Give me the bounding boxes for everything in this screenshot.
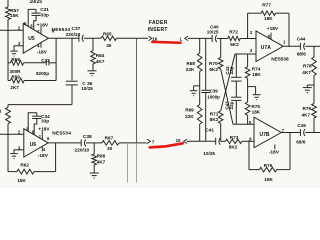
resistor R70	[209, 39, 223, 73]
svg-text:8K2: 8K2	[210, 117, 219, 122]
svg-text:R71: R71	[210, 112, 219, 117]
svg-text:16: 16	[152, 36, 157, 41]
resistor R77	[248, 3, 289, 47]
node L return arrow	[180, 36, 189, 41]
capacitor C41	[203, 128, 220, 156]
resistor R79	[302, 85, 317, 133]
resistor R72	[228, 30, 241, 48]
svg-text:10/25: 10/25	[30, 0, 43, 5]
pin 3	[18, 145, 21, 150]
svg-text:U5: U5	[28, 36, 35, 42]
svg-text:22K: 22K	[185, 114, 194, 119]
node 7 send arrow	[147, 139, 155, 145]
capacitor C39	[201, 39, 220, 142]
resistor R66	[92, 143, 106, 173]
pin 2	[18, 130, 21, 135]
svg-text:4K7: 4K7	[96, 59, 105, 64]
svg-text:NE5538: NE5538	[271, 56, 289, 62]
svg-text:R79: R79	[303, 106, 312, 111]
wire	[117, 37, 148, 39]
pin 7 +18V	[38, 126, 50, 139]
svg-text:4K7: 4K7	[302, 113, 311, 118]
capacitor C43	[225, 97, 242, 124]
pin 4 -18V	[37, 43, 48, 56]
svg-text:15K: 15K	[10, 13, 19, 18]
label NE5538	[271, 56, 289, 62]
svg-text:68/6: 68/6	[296, 139, 306, 144]
svg-text:R62: R62	[20, 163, 29, 168]
red insert jumper mark	[150, 143, 183, 147]
svg-text:R74: R74	[252, 66, 261, 71]
capacitor C37	[66, 26, 84, 42]
wire	[0, 133, 24, 135]
label NE5534	[52, 27, 71, 33]
wire	[221, 54, 235, 111]
svg-text:NE5534: NE5534	[52, 131, 71, 137]
svg-text:22p: 22p	[229, 101, 234, 109]
resistor R59	[10, 74, 24, 90]
resistor R73	[225, 135, 242, 150]
capacitor C40	[207, 25, 219, 43]
wire	[8, 171, 17, 173]
svg-text:-18V: -18V	[38, 153, 49, 159]
svg-text:R65: R65	[103, 31, 112, 36]
wire	[7, 20, 9, 81]
wire	[84, 37, 101, 39]
svg-text:R67: R67	[105, 135, 114, 140]
resistor R57	[6, 7, 20, 20]
wire	[48, 142, 81, 144]
wire	[281, 132, 300, 134]
svg-text:R64: R64	[96, 53, 105, 58]
svg-text:68/6: 68/6	[297, 51, 307, 56]
wire	[86, 142, 102, 144]
svg-text:R66: R66	[97, 154, 106, 159]
resistor R76	[249, 133, 290, 182]
wire	[49, 38, 56, 63]
svg-text:R78: R78	[303, 64, 312, 69]
pin 3	[250, 48, 253, 53]
svg-text:FADER: FADER	[149, 20, 168, 26]
resistor R64	[91, 38, 105, 70]
svg-text:4K7: 4K7	[302, 70, 311, 75]
wire	[34, 143, 56, 172]
pin 1	[283, 40, 286, 45]
node 10 return arrow	[176, 138, 187, 143]
wire	[199, 72, 201, 105]
capacitor C32	[36, 58, 50, 76]
pin 3	[18, 41, 21, 46]
capacitor C36	[66, 38, 94, 104]
svg-text:R59: R59	[11, 74, 20, 79]
wire	[240, 38, 256, 40]
svg-text:R70: R70	[209, 61, 218, 66]
svg-text:+18V: +18V	[38, 126, 50, 132]
svg-text:R68: R68	[186, 61, 195, 66]
pin 4 -18V	[269, 145, 280, 156]
pin 6	[52, 28, 55, 33]
svg-text:10/25: 10/25	[81, 86, 93, 91]
wire	[221, 69, 233, 124]
svg-text:R77: R77	[262, 3, 271, 8]
svg-text:2K7: 2K7	[10, 85, 19, 90]
svg-text:-18V: -18V	[269, 149, 280, 155]
op-amp U7B	[254, 117, 281, 148]
op-amp U7A	[256, 31, 283, 62]
capacitor C31	[28, 7, 49, 29]
wire	[7, 0, 9, 7]
pin 8 +18V	[267, 26, 279, 40]
pin 6	[249, 136, 252, 141]
svg-text:15K: 15K	[17, 178, 26, 183]
svg-text:INSERT: INSERT	[148, 27, 168, 33]
wire	[14, 150, 24, 154]
wire	[305, 132, 320, 134]
wire	[8, 63, 56, 81]
pin 5	[24, 21, 27, 26]
svg-text:C45: C45	[297, 123, 306, 128]
wire	[0, 29, 23, 31]
svg-text:220/10: 220/10	[75, 147, 90, 153]
resistor R74	[245, 54, 261, 78]
svg-text:R73: R73	[230, 135, 239, 140]
svg-text:C44: C44	[297, 36, 306, 41]
resistor R65	[101, 31, 117, 48]
capacitor C38	[75, 134, 93, 153]
ground	[10, 154, 17, 159]
capacitor C44	[297, 36, 307, 56]
op-amp U6	[24, 129, 48, 157]
svg-text:C37: C37	[72, 26, 81, 32]
svg-text:18K: 18K	[252, 72, 261, 77]
svg-text:10/25: 10/25	[203, 151, 215, 156]
resistor R62	[17, 163, 34, 184]
svg-text:+18V: +18V	[37, 22, 49, 28]
ground	[88, 71, 97, 76]
capacitor C45	[296, 123, 306, 144]
svg-text:18K: 18K	[264, 177, 273, 182]
svg-text:1000p: 1000p	[207, 94, 220, 99]
ground	[190, 86, 200, 96]
ground	[248, 87, 261, 100]
svg-text:22p: 22p	[229, 66, 234, 74]
resistor R58	[10, 57, 24, 74]
svg-text:R58: R58	[11, 57, 20, 62]
svg-text:R72: R72	[229, 30, 238, 35]
wire	[8, 62, 46, 64]
wire	[126, 143, 128, 183]
wire	[8, 104, 72, 106]
svg-text:R75: R75	[251, 104, 260, 109]
resistor R75	[245, 102, 261, 124]
svg-text:C32: C32	[41, 58, 50, 63]
wire	[242, 140, 254, 142]
label NE5534	[52, 131, 71, 137]
resistor R78	[302, 46, 316, 85]
pin 7	[282, 128, 285, 133]
svg-text:8200p: 8200p	[36, 71, 49, 76]
ground	[90, 173, 99, 178]
svg-text:30: 30	[106, 43, 112, 48]
wire	[199, 124, 201, 141]
wire	[119, 142, 147, 144]
svg-text:U6: U6	[30, 142, 37, 148]
svg-text:4K7: 4K7	[97, 159, 106, 164]
wire	[235, 53, 256, 55]
svg-text:10/25: 10/25	[207, 30, 219, 35]
ground	[303, 85, 314, 93]
wire	[283, 45, 300, 47]
pin 5	[249, 120, 252, 125]
svg-text:R69: R69	[185, 108, 194, 113]
pin 7 +18V	[37, 22, 49, 34]
svg-text:-18V: -18V	[37, 50, 48, 56]
svg-text:C39: C39	[210, 88, 219, 93]
svg-text:30: 30	[107, 146, 113, 151]
wire	[188, 37, 212, 39]
node 16 send arrow	[149, 36, 158, 41]
pin 8	[30, 23, 33, 28]
svg-text:18K: 18K	[252, 110, 261, 115]
resistor R61	[0, 105, 10, 124]
resistor R71	[210, 111, 223, 142]
svg-text:33p: 33p	[41, 118, 49, 123]
svg-text:R76: R76	[264, 163, 273, 168]
capacitor C42	[225, 54, 242, 97]
svg-text:22K: 22K	[186, 67, 195, 72]
capacitor C34	[28, 113, 50, 135]
svg-text:18K: 18K	[264, 16, 273, 21]
resistor R67	[102, 135, 119, 151]
op-amp U5	[23, 23, 48, 53]
svg-text:U7A: U7A	[261, 45, 271, 51]
resistor R68	[186, 39, 202, 73]
svg-text:8K2: 8K2	[229, 145, 238, 150]
wire	[305, 45, 320, 47]
svg-text:C41: C41	[205, 128, 214, 133]
resistor R69	[185, 105, 202, 125]
pin 2	[250, 30, 253, 35]
pin 5	[26, 126, 29, 131]
svg-text:L: L	[180, 36, 183, 41]
pin 2	[18, 26, 21, 31]
red insert jumper mark	[152, 41, 180, 44]
wire	[247, 78, 249, 102]
wire	[221, 140, 226, 142]
svg-text:33p: 33p	[41, 12, 49, 17]
wire	[217, 38, 228, 40]
pin 8	[32, 129, 35, 134]
svg-text:6K2: 6K2	[230, 42, 239, 47]
svg-text:10: 10	[176, 138, 181, 143]
svg-text:+18V: +18V	[267, 26, 279, 32]
wire	[48, 37, 78, 39]
label FADER INSERT	[148, 20, 168, 33]
pin 6	[47, 136, 50, 141]
capacitor value 10/25 (clipped at top)	[30, 0, 43, 5]
svg-text:C38: C38	[83, 134, 92, 140]
wire	[187, 140, 216, 142]
wire	[7, 124, 9, 172]
ground	[10, 51, 17, 56]
wire	[136, 38, 138, 182]
wire	[14, 46, 23, 51]
svg-text:6K2: 6K2	[209, 67, 218, 72]
svg-text:220/10: 220/10	[66, 32, 81, 38]
wire	[233, 123, 254, 125]
pin 4 -18V	[38, 146, 49, 159]
svg-text:U7B: U7B	[260, 132, 270, 138]
